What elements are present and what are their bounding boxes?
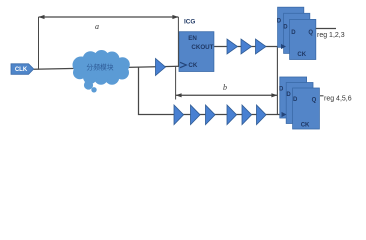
flip-flop front [293, 88, 320, 129]
leader tick reg 4,5,6 [320, 95, 324, 97]
buffer top 1 [227, 39, 238, 54]
dimension a extension left [38, 17, 40, 70]
buffer bottom 3 [206, 105, 216, 125]
svg-text:reg 4,5,6: reg 4,5,6 [324, 96, 352, 103]
flip-flop back [278, 7, 304, 47]
CLK input tag [11, 64, 34, 75]
flip-flop back [280, 77, 307, 118]
svg-text:a: a [95, 22, 99, 31]
dimension b line [176, 94, 278, 96]
svg-text:reg 1,2,3: reg 1,2,3 [317, 32, 345, 39]
svg-text:CLK: CLK [15, 67, 28, 73]
svg-text:D: D [283, 24, 288, 30]
clock chevron [180, 62, 186, 67]
buffer bottom 1 [174, 105, 184, 125]
buffer bottom 4 [227, 105, 237, 125]
buffer top 2 [241, 39, 252, 54]
wire vertical from top junction down to bottom registers [276, 47, 278, 115]
svg-text:D: D [279, 87, 284, 93]
wire ICG CKOUT to top registers [214, 46, 280, 48]
wire CLK to ICG CK [34, 66, 180, 69]
svg-text:D: D [291, 30, 296, 36]
buffer top 3 [256, 39, 267, 54]
svg-text:CKOUT: CKOUT [191, 44, 213, 51]
buffer bottom 5 [242, 105, 252, 125]
dimension a line [39, 16, 179, 18]
wire junction drop to bottom row [139, 67, 283, 114]
buffer bottom 6 [257, 105, 267, 125]
flip-flop front [290, 19, 316, 59]
clock pin marker [281, 44, 286, 49]
register stack bottom (reg 4,5,6) [279, 77, 319, 129]
buffer middle [156, 59, 166, 76]
svg-text:CK: CK [301, 122, 310, 128]
cloud divider module [73, 50, 130, 93]
ICG block [179, 32, 214, 72]
register stack top (reg 1,2,3) [277, 7, 316, 59]
svg-text:ICG: ICG [184, 18, 195, 25]
svg-text:D: D [286, 92, 291, 98]
extension line dim b left [175, 67, 177, 100]
flip-flop middle [284, 13, 310, 53]
svg-text:D: D [293, 97, 298, 103]
svg-text:Q: Q [308, 30, 313, 36]
leader line reg 1,2,3 [316, 28, 336, 30]
svg-text:b: b [223, 83, 227, 92]
buffer bottom 2 [191, 105, 201, 125]
svg-text:D: D [277, 18, 282, 24]
svg-text:CK: CK [188, 62, 197, 69]
svg-text:EN: EN [188, 35, 197, 42]
svg-text:分频模块: 分频模块 [86, 63, 113, 72]
flip-flop middle [286, 83, 313, 124]
svg-text:CK: CK [297, 52, 306, 58]
clock pin marker [282, 112, 287, 117]
svg-text:Q: Q [312, 98, 317, 104]
dimension a extension right [177, 17, 179, 67]
